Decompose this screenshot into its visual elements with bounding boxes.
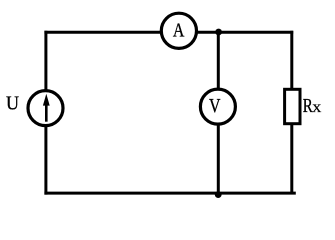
svg-text:A: A	[173, 20, 185, 42]
svg-text:U: U	[6, 93, 19, 115]
svg-text:X: X	[312, 101, 321, 115]
svg-text:V: V	[209, 95, 221, 117]
